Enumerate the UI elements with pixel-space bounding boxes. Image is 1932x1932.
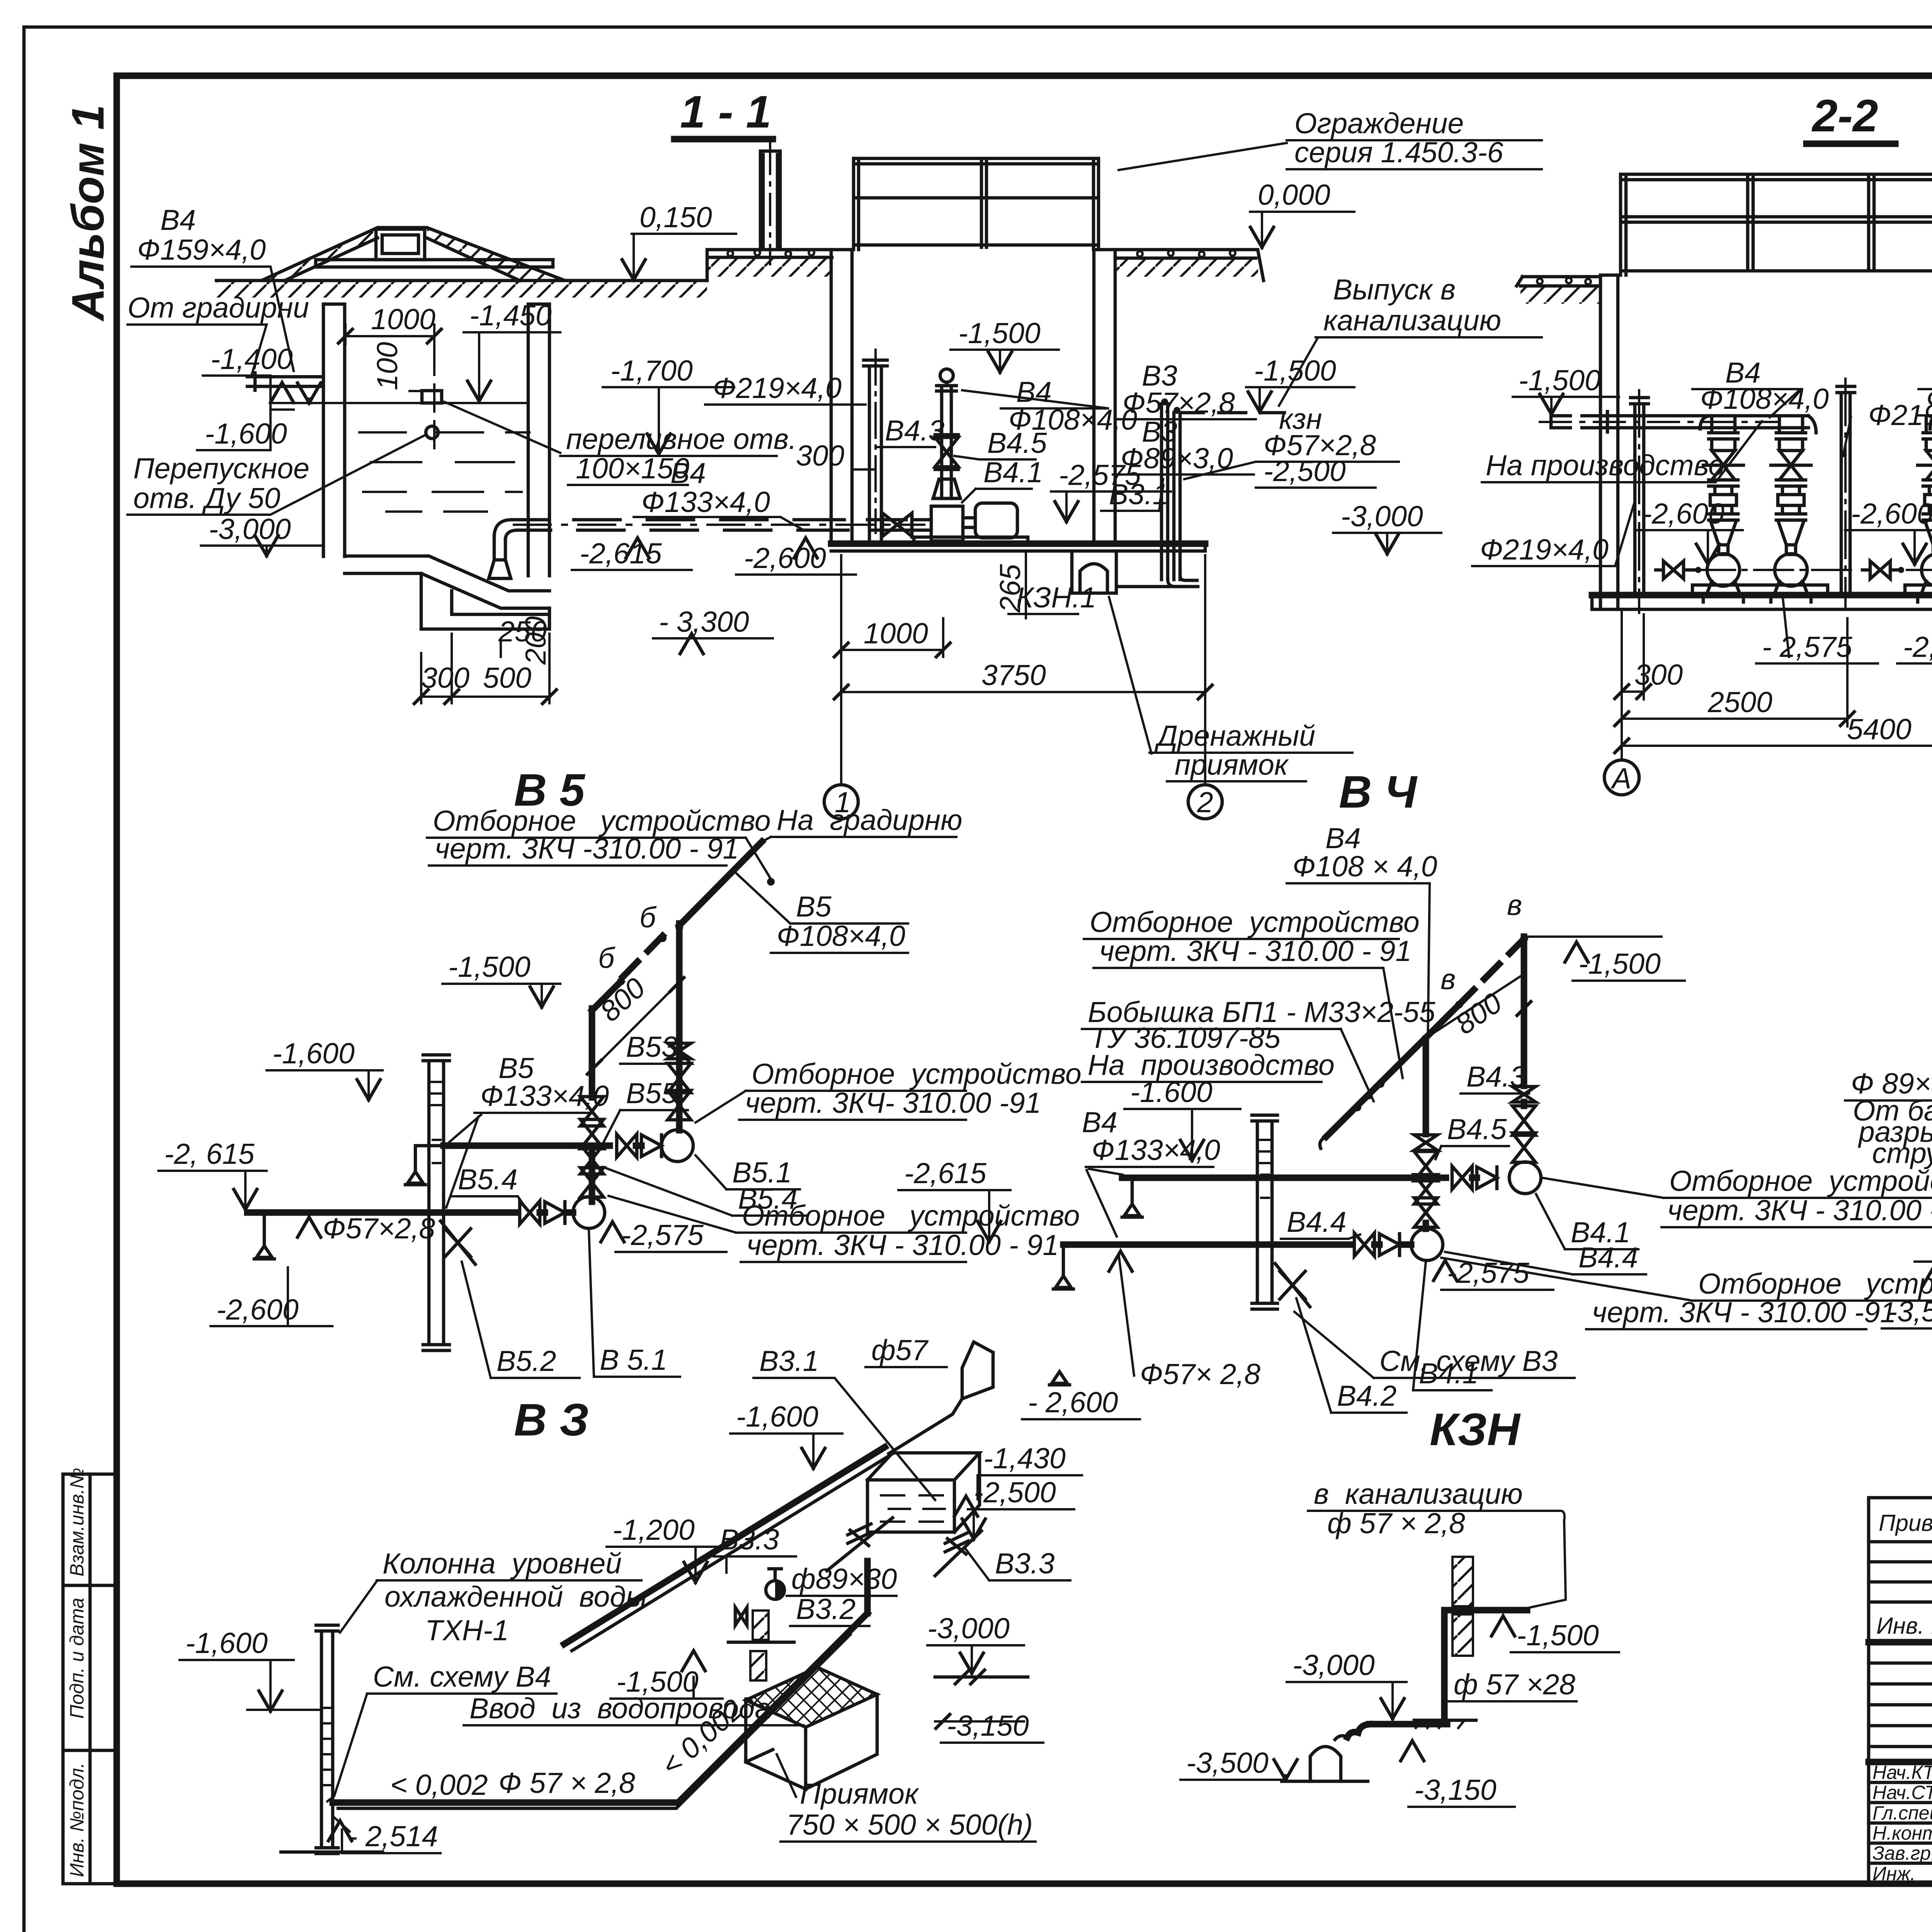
- left header pipe to production: [1551, 412, 1712, 432]
- svg-text:в: в: [1507, 889, 1522, 921]
- upper horizontal pipe: [1122, 1175, 1477, 1181]
- svg-text:Колонна уровней: Колонна уровней: [383, 1547, 622, 1580]
- svg-text:-2, 615: -2, 615: [164, 1138, 255, 1170]
- svg-text:в канализацию: в канализацию: [1314, 1478, 1523, 1510]
- drain valve B5.2: [440, 1221, 475, 1264]
- floor slab: [1592, 592, 1932, 599]
- svg-text:-1,600: -1,600: [205, 417, 287, 450]
- level column TXH: [423, 1055, 449, 1350]
- svg-text:-1,200: -1,200: [612, 1514, 695, 1546]
- svg-text:В4.3: В4.3: [885, 414, 945, 447]
- svg-text:Отборное устройство: Отборное устройство: [1698, 1267, 1932, 1300]
- svg-text:Ф133×4,0: Ф133×4,0: [641, 486, 770, 518]
- svg-text:2-2: 2-2: [1811, 90, 1878, 141]
- pump and motor: [931, 498, 963, 541]
- drain valve B4.2: [1275, 1264, 1310, 1307]
- svg-text:В53: В53: [626, 1031, 678, 1063]
- svg-text:300: 300: [796, 439, 844, 472]
- mound over tank: [262, 228, 565, 281]
- dashed б-б jumper: [621, 936, 663, 979]
- railing fence: [1621, 174, 1932, 275]
- base plates: [1692, 585, 1932, 595]
- pump room right wall: [1094, 250, 1115, 544]
- svg-text:В5.2: В5.2: [497, 1345, 556, 1377]
- svg-text:А: А: [1611, 762, 1631, 794]
- tank left wall: [323, 304, 345, 556]
- gauge on lower pipe: [573, 1197, 605, 1228]
- svg-text:Инж.: Инж.: [1872, 1863, 1916, 1884]
- svg-text:100: 100: [371, 342, 403, 390]
- svg-text:Нач.СТО: Нач.СТО: [1872, 1782, 1932, 1803]
- left ground pad: [1517, 277, 1600, 286]
- room left wall: [1600, 275, 1618, 609]
- svg-text:Привязан: Привязан: [1879, 1510, 1932, 1536]
- svg-text:В4.3: В4.3: [1466, 1060, 1526, 1093]
- pump room left wall: [831, 250, 852, 544]
- water surface: [345, 402, 528, 404]
- svg-text:< 0,002: < 0,002: [390, 1769, 488, 1801]
- svg-text:черт. 3КЧ - 310.00 -91: черт. 3КЧ - 310.00 -91: [1592, 1296, 1896, 1328]
- svg-text:Ф57×2,8: Ф57×2,8: [1122, 386, 1235, 419]
- svg-text:0,150: 0,150: [639, 201, 712, 233]
- svg-text:В 5.1: В 5.1: [600, 1344, 667, 1376]
- svg-text:-1,500: -1,500: [448, 951, 531, 983]
- dim 800 diagonal: [594, 985, 677, 1067]
- right branch valve stack: [676, 1043, 683, 1130]
- left GOST strip: [63, 1468, 117, 1884]
- gate valve on suction: [883, 513, 912, 536]
- concrete pad near column: [707, 250, 832, 281]
- svg-text:В Ч: В Ч: [1339, 767, 1418, 818]
- upper horizontal pipe: [444, 1143, 641, 1149]
- svg-text:-2,615: -2,615: [580, 537, 662, 570]
- svg-text:ф57: ф57: [871, 1334, 929, 1366]
- svg-text:-2,600: -2,600: [1642, 497, 1725, 530]
- svg-text:-1,500: -1,500: [958, 317, 1041, 349]
- svg-text:- 3,300: - 3,300: [659, 605, 749, 638]
- drainage pit KZN.1: [1072, 551, 1116, 593]
- svg-text:-3,000: -3,000: [209, 513, 291, 545]
- svg-text:-3,500: -3,500: [1186, 1747, 1269, 1779]
- svg-text:750 × 500 × 500(h): 750 × 500 × 500(h): [786, 1808, 1033, 1841]
- inlet funnel: [962, 1342, 993, 1399]
- wall pass hatched blocks: [753, 1611, 769, 1640]
- axis circle 2: [1188, 785, 1222, 819]
- suction pipe with foot valve: [489, 537, 511, 578]
- svg-text:Ф89×3,0: Ф89×3,0: [1121, 442, 1233, 474]
- svg-text:Ф219×4,0: Ф219×4,0: [713, 372, 842, 404]
- vent box on mound: [376, 229, 425, 260]
- svg-text:В4: В4: [160, 204, 196, 236]
- dim 800 diagonal: [1430, 976, 1521, 1036]
- pump group V4 header: [1700, 416, 1816, 433]
- right concrete pad: [1115, 250, 1264, 281]
- level column TXH: [1252, 1115, 1277, 1309]
- svg-text:ф 57 × 2,8: ф 57 × 2,8: [1327, 1507, 1465, 1539]
- svg-text:3750: 3750: [981, 659, 1046, 691]
- svg-text:Отборное устройство: Отборное устройство: [1669, 1165, 1932, 1197]
- svg-text:-2,600: -2,600: [1851, 497, 1932, 530]
- svg-text:-2,600: -2,600: [216, 1293, 299, 1326]
- svg-text:черт. 3КЧ -310.00 - 91: черт. 3КЧ -310.00 - 91: [435, 832, 739, 865]
- left branch valve stack: [580, 1097, 604, 1126]
- main pipe run: [333, 1613, 867, 1803]
- short link at -1,500: [728, 1641, 794, 1644]
- svg-text:Ф57×2,8: Ф57×2,8: [323, 1212, 435, 1245]
- svg-text:б: б: [639, 901, 657, 934]
- drain from upper pipe left: [415, 1146, 444, 1171]
- right risers B3/KZN: [1162, 404, 1180, 580]
- steel column with centerline: [760, 151, 780, 250]
- svg-text:Нач.КТО: Нач.КТО: [1872, 1762, 1932, 1783]
- svg-text:В3.3: В3.3: [719, 1523, 779, 1556]
- level -2,600: [1049, 1372, 1070, 1385]
- svg-text:-2,575: -2,575: [1903, 631, 1932, 663]
- svg-text:Инв. №подл.: Инв. №подл.: [66, 1763, 88, 1877]
- svg-text:В5: В5: [796, 890, 832, 923]
- svg-text:0,000: 0,000: [1258, 179, 1330, 211]
- roof slab over tank: [316, 260, 553, 267]
- standpipe f219: [864, 360, 887, 544]
- svg-text:-2,575: -2,575: [621, 1219, 704, 1251]
- svg-text:Ограждение: Ограждение: [1294, 107, 1464, 139]
- svg-text:- 2,514: - 2,514: [348, 1820, 438, 1852]
- svg-text:От градирни: От градирни: [128, 291, 309, 324]
- right branch: [1521, 937, 1527, 1086]
- svg-text:В4.1: В4.1: [1419, 1357, 1478, 1389]
- float valve B3.2: [766, 1581, 784, 1599]
- svg-text:отв. Ду 50: отв. Ду 50: [133, 482, 281, 514]
- ground hatch at -3,000: [1414, 1719, 1476, 1722]
- svg-text:Зав.гр.: Зав.гр.: [1872, 1842, 1932, 1864]
- level column TXH-1: [316, 1625, 338, 1854]
- svg-text:В4.5: В4.5: [1447, 1113, 1507, 1145]
- gauge on upper pipe: [662, 1130, 693, 1162]
- svg-text:-1,500: -1,500: [1517, 1619, 1599, 1651]
- svg-text:-1,430: -1,430: [983, 1442, 1066, 1475]
- svg-text:-2,615: -2,615: [904, 1157, 986, 1189]
- svg-text:Ф133×4,0: Ф133×4,0: [480, 1080, 609, 1112]
- dome (siphon outlet): [1310, 1736, 1347, 1781]
- svg-text:-3,000: -3,000: [1293, 1649, 1375, 1681]
- svg-text:-3,150: -3,150: [1414, 1774, 1497, 1806]
- svg-text:Ф 57 × 2,8: Ф 57 × 2,8: [498, 1767, 635, 1799]
- tank centerline: [433, 348, 435, 448]
- railing fence on top: [854, 158, 1099, 250]
- svg-text:б: б: [598, 942, 616, 974]
- left standpipe f219: [1631, 398, 1648, 595]
- svg-text:Альбом 1: Альбом 1: [63, 104, 114, 322]
- axis dim lines: [841, 555, 1205, 784]
- svg-text:1 - 1: 1 - 1: [680, 87, 771, 138]
- level -1,500 top: [1524, 935, 1662, 938]
- svg-text:-1,600: -1,600: [736, 1400, 818, 1433]
- svg-text:в: в: [1440, 963, 1456, 995]
- svg-text:В4.2: В4.2: [1337, 1379, 1396, 1412]
- svg-text:-1,450: -1,450: [469, 299, 552, 332]
- svg-text:Взам.инв.№: Взам.инв.№: [66, 1468, 88, 1577]
- svg-text:-3,150: -3,150: [947, 1709, 1029, 1742]
- middle standpipe f219: [1837, 386, 1855, 595]
- svg-text:-1,400: -1,400: [211, 343, 293, 375]
- svg-text:Ф219×4,0: Ф219×4,0: [1480, 533, 1609, 566]
- pit with crosshatch: [746, 1667, 877, 1727]
- svg-text:Приямок: Приямок: [800, 1777, 919, 1810]
- svg-text:- 2,575: - 2,575: [1762, 631, 1852, 663]
- svg-text:ф89×30: ф89×30: [791, 1563, 897, 1595]
- svg-text:Перепускное: Перепускное: [133, 452, 310, 485]
- svg-text:500: 500: [483, 662, 531, 694]
- svg-text:-1.600: -1.600: [1130, 1076, 1213, 1108]
- room floor slab: [831, 541, 1205, 547]
- svg-text:черт. 3КЧ - 310.00 - 91: черт. 3КЧ - 310.00 - 91: [1099, 935, 1412, 967]
- upper parallel pipe from tank: [564, 1447, 885, 1644]
- svg-text:-1,600: -1,600: [272, 1037, 355, 1070]
- svg-text:-1,500: -1,500: [616, 1665, 699, 1698]
- svg-text:В3.3: В3.3: [995, 1547, 1055, 1580]
- svg-text:-1,600: -1,600: [185, 1627, 268, 1659]
- dashed б-б jumper: [1459, 939, 1524, 1005]
- bypass opening circle: [426, 426, 438, 439]
- svg-text:Гл.спец.: Гл.спец.: [1872, 1802, 1932, 1824]
- svg-text:Дренажный: Дренажный: [1155, 719, 1315, 752]
- lower horizontal pipe: [1063, 1242, 1411, 1248]
- drain valves near floor: [1656, 561, 1695, 579]
- svg-text:охлажденной воды: охлажденной воды: [384, 1580, 647, 1613]
- left attachment table: [1869, 1498, 1932, 1884]
- tank right wall: [528, 304, 549, 576]
- svg-text:Ф159×4,0: Ф159×4,0: [137, 233, 266, 266]
- pump axis centerlines: [1696, 569, 1932, 571]
- svg-text:В З: В З: [514, 1395, 589, 1446]
- axis circle A: [1604, 760, 1639, 795]
- svg-text:300: 300: [1634, 658, 1683, 691]
- project code box: [1869, 1642, 1932, 1884]
- pump vertical assembly: [937, 386, 956, 498]
- svg-text:переливное отв.: переливное отв.: [566, 423, 797, 455]
- svg-text:5400: 5400: [1847, 713, 1912, 745]
- wall pass hatched blocks: [1452, 1557, 1473, 1606]
- lower horizontal pipe: [247, 1209, 573, 1216]
- pipe: [1370, 1610, 1527, 1724]
- svg-text:Подп. и дата: Подп. и дата: [66, 1598, 88, 1719]
- main diagonal pipe out: [679, 842, 762, 1043]
- svg-text:-2,600: -2,600: [744, 542, 826, 574]
- svg-text:Выпуск в: Выпуск в: [1333, 273, 1456, 306]
- ground hatch left: [216, 281, 707, 298]
- svg-text:Ф108×4,0: Ф108×4,0: [1700, 383, 1829, 415]
- signature rows separators: [1869, 1782, 1932, 1863]
- svg-text:КЗН.1: КЗН.1: [1016, 581, 1096, 614]
- svg-text:ф 57 ×28: ф 57 ×28: [1454, 1668, 1575, 1701]
- tank box: [867, 1453, 980, 1532]
- axis circle 1: [824, 785, 858, 819]
- pump group V5 header: [1930, 416, 1932, 429]
- svg-text:-1,500: -1,500: [1519, 364, 1601, 396]
- dim 1000 tank: [345, 325, 434, 350]
- left branch: [1423, 1039, 1429, 1229]
- svg-text:В4.4: В4.4: [1287, 1206, 1346, 1238]
- ground line left: [216, 279, 707, 282]
- svg-text:См. схему В4: См. схему В4: [373, 1660, 551, 1693]
- svg-text:В5.4: В5.4: [458, 1163, 517, 1196]
- svg-text:-1,500: -1,500: [1254, 354, 1336, 387]
- svg-text:- 2,600: - 2,600: [1028, 1386, 1118, 1418]
- overflow opening: [422, 391, 442, 403]
- svg-text:2: 2: [1197, 786, 1213, 818]
- svg-text:В55: В55: [626, 1077, 678, 1109]
- valves on diagonals: [827, 1518, 893, 1571]
- svg-text:В3.2: В3.2: [796, 1593, 855, 1625]
- left branch drop: [592, 981, 621, 1097]
- bottom dims: [1622, 609, 1932, 757]
- svg-text:-2,575: -2,575: [1447, 1257, 1529, 1289]
- svg-text:2500: 2500: [1708, 686, 1772, 718]
- svg-text:ТХН-1: ТХН-1: [425, 1614, 509, 1646]
- suction elbow into pump: [912, 514, 931, 537]
- svg-text:В4.4: В4.4: [1578, 1241, 1638, 1274]
- svg-text:Отборное устройство: Отборное устройство: [1090, 906, 1420, 938]
- svg-text:1000: 1000: [371, 303, 435, 335]
- svg-text:200: 200: [519, 616, 552, 665]
- svg-text:Ф133×4,0: Ф133×4,0: [1092, 1134, 1220, 1166]
- svg-text:-1,700: -1,700: [611, 354, 693, 387]
- svg-text:На производство: На производство: [1486, 449, 1725, 481]
- svg-text:черт. 3КЧ - 310.00 - 91: черт. 3КЧ - 310.00 - 91: [747, 1229, 1059, 1261]
- svg-text:канализацию: канализацию: [1323, 304, 1501, 337]
- svg-text:Отборное устройство: Отборное устройство: [742, 1199, 1080, 1232]
- left end drop with support: [263, 1213, 266, 1245]
- svg-text:300: 300: [421, 662, 469, 694]
- svg-text:1000: 1000: [864, 617, 928, 650]
- svg-text:Ф108 × 4,0: Ф108 × 4,0: [1293, 850, 1437, 883]
- svg-text:В4.1: В4.1: [983, 456, 1043, 488]
- svg-text:-1,500: -1,500: [1578, 947, 1661, 980]
- svg-text:Н.контр: Н.контр: [1872, 1822, 1932, 1844]
- svg-text:-3,000: -3,000: [927, 1612, 1010, 1645]
- main diagonal pipe: [1326, 1005, 1459, 1137]
- svg-text:Ф57× 2,8: Ф57× 2,8: [1140, 1358, 1260, 1390]
- svg-text:черт. 3КЧ - 310.00 - 91: черт. 3КЧ - 310.00 - 91: [1667, 1194, 1932, 1226]
- ground under column: [281, 1850, 383, 1854]
- svg-text:-3,000: -3,000: [1341, 500, 1423, 532]
- svg-text:Отборное устройство: Отборное устройство: [752, 1058, 1082, 1090]
- svg-text:Инв. №: Инв. №: [1876, 1613, 1932, 1639]
- svg-text:В3.1: В3.1: [759, 1345, 819, 1377]
- svg-text:КЗН: КЗН: [1430, 1404, 1521, 1455]
- svg-text:На градирню: На градирню: [777, 804, 963, 836]
- svg-text:В4: В4: [1325, 822, 1361, 854]
- svg-text:-2,500: -2,500: [974, 1476, 1056, 1509]
- tank floor and sump: [345, 556, 549, 608]
- svg-text:Ф108×4,0: Ф108×4,0: [1926, 383, 1932, 415]
- svg-text:-2,500: -2,500: [1264, 455, 1346, 487]
